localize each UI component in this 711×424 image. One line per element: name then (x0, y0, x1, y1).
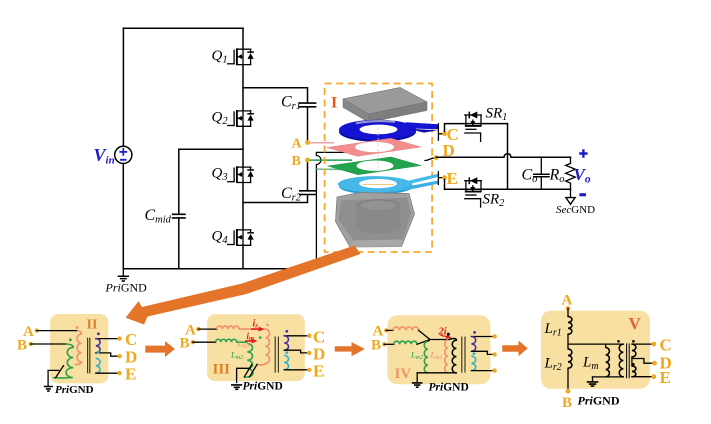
svg-text:Q2: Q2 (212, 110, 229, 128)
wire Vin to bottom rail (122, 164, 124, 269)
node E V (651, 374, 656, 379)
inductor Lr2 V (568, 349, 572, 368)
winding salmon vertical III (258, 329, 270, 365)
dashed box I (325, 84, 433, 253)
capacitor Cr2 (281, 185, 316, 204)
resistor Ro (549, 157, 576, 189)
arrow III to IV (335, 342, 365, 356)
ground SecGND (556, 189, 595, 216)
node E II (117, 371, 121, 375)
svg-text:C: C (660, 336, 672, 355)
wire secondary bottom rail (445, 188, 571, 190)
ground PriGND III (231, 364, 283, 392)
svg-text:B: B (180, 336, 190, 352)
wire Q1 drain from rail (242, 28, 244, 49)
svg-text:E: E (125, 365, 136, 384)
svg-text:IV: IV (395, 366, 412, 382)
capacitor Co (522, 157, 550, 189)
node C V (651, 342, 656, 347)
svg-text:A: A (562, 293, 573, 309)
wire node to Cr2 (243, 195, 308, 203)
wire Q4 source to bottom rail (242, 245, 244, 269)
wire Q2 source to Q3 drain (242, 126, 244, 167)
node D III (307, 351, 311, 355)
winding ring blue (layer C) (339, 120, 438, 142)
node C III (307, 334, 311, 338)
svg-text:Cr1: Cr1 (281, 94, 301, 113)
wire E III (284, 369, 309, 371)
wire D tap II (96, 353, 120, 356)
node C IV (492, 334, 496, 338)
wire node to Cmid (179, 149, 243, 214)
wire E II (96, 372, 120, 374)
wire Cr1 to node A (307, 107, 309, 140)
winding secondary purple II (96, 339, 100, 353)
wire C V (632, 343, 654, 345)
winding sheet salmon (layer A) (327, 138, 421, 156)
node D V (652, 361, 657, 366)
ground PriGND II (44, 366, 94, 396)
svg-text:I: I (331, 95, 337, 112)
node A (305, 140, 310, 145)
transistor SR1 (465, 112, 482, 142)
core III (275, 337, 278, 373)
wire B IV (384, 343, 394, 345)
svg-text:V: V (629, 314, 642, 333)
node B (305, 158, 310, 163)
svg-text:Q4: Q4 (212, 229, 229, 247)
capacitor Cr1 (281, 94, 316, 113)
transistor Q3 (228, 166, 254, 183)
svg-text:PriGND: PriGND (429, 382, 469, 394)
arrow IV to V (502, 341, 528, 357)
wire B II (31, 343, 66, 345)
inductor Lk1 salmon horizontal IV (393, 327, 419, 330)
transistor Q1 (228, 48, 254, 65)
wire node to Lm and primary (568, 334, 623, 349)
winding primary salmon II (75, 331, 82, 365)
wire bracket E (438, 172, 442, 185)
wire node to Cr1 (243, 88, 308, 103)
inductor Lm2 green vertical III (244, 344, 253, 378)
wire B III (193, 341, 216, 343)
wire C IV (471, 336, 494, 338)
svg-text:SR1: SR1 (486, 106, 508, 124)
wire A IV (386, 329, 393, 331)
panel V background (541, 311, 650, 389)
core top plate (343, 88, 427, 123)
svg-text:B: B (562, 395, 572, 411)
svg-text:Vin: Vin (94, 145, 115, 167)
svg-text:SecGND: SecGND (556, 204, 595, 216)
node A IV (384, 328, 388, 332)
core IV (462, 337, 465, 373)
winding primary black V (619, 344, 623, 377)
winding ring cyan (layer E) (338, 174, 438, 195)
panel II background (50, 314, 108, 383)
wire A III (198, 328, 216, 330)
node B III (191, 340, 195, 344)
inductor Lk2 green horizontal IV (394, 341, 417, 344)
svg-text:II: II (87, 318, 98, 333)
node D (434, 155, 439, 160)
winding secondary lower V (632, 366, 636, 377)
wire A to Lr1 (567, 308, 569, 316)
wire SR1 to bottom rail (507, 124, 509, 190)
wire E down to rail (444, 180, 446, 190)
winding secondary teal II (96, 358, 100, 373)
inductor Lk2 green horizontal III (216, 339, 248, 342)
current arrow ir III (251, 328, 260, 330)
wire bottom rail V (593, 376, 624, 378)
wire Cr2 to node B (307, 162, 309, 191)
wire Q1 source to Q2 drain (242, 65, 244, 111)
winding secondary teal IV (471, 356, 475, 370)
node E (442, 175, 447, 180)
capacitor Cmid (145, 207, 186, 226)
inductor Lm1 salmon vertical IV (445, 340, 448, 373)
wire Lr2 to node B (567, 368, 569, 389)
current arrow im III (245, 340, 253, 342)
wire top rail (123, 27, 243, 29)
polarity dots V (617, 340, 620, 343)
node A II (35, 328, 39, 332)
inductor Lk1 salmon horizontal III (217, 326, 266, 329)
panel III background (207, 314, 305, 381)
svg-text:B: B (17, 338, 27, 354)
wire bottom rail (123, 268, 316, 270)
svg-text:E: E (447, 169, 458, 188)
svg-text:Ro: Ro (549, 167, 565, 186)
inductor Lm V (605, 344, 607, 347)
wire E IV (471, 370, 494, 372)
svg-text:PriGND: PriGND (55, 384, 94, 396)
wire A II (37, 330, 77, 332)
svg-text:B: B (371, 338, 381, 354)
svg-text:E: E (313, 362, 324, 381)
wire C III (284, 335, 309, 337)
node D II (117, 354, 121, 358)
winding secondary purple IV (471, 336, 475, 351)
svg-text:PriGND: PriGND (578, 394, 620, 408)
winding secondary purple III (284, 336, 288, 350)
ground PriGND main (105, 269, 148, 295)
svg-text:Q1: Q1 (212, 48, 228, 66)
wire E V (632, 376, 654, 378)
wire bottom rail IV (417, 372, 456, 374)
svg-text:Vo: Vo (574, 165, 591, 186)
ground PriGND V (578, 377, 620, 408)
svg-text:Q3: Q3 (212, 166, 228, 184)
ground PriGND IV (412, 373, 469, 394)
wire C II (96, 338, 120, 340)
wire C to SR1 line (445, 124, 508, 132)
arrow II to III (145, 341, 175, 357)
core V (627, 343, 630, 378)
wire left vertical to Vin (122, 28, 124, 146)
node E III (307, 368, 311, 372)
arrow big (126, 246, 361, 325)
node A III (196, 327, 200, 331)
node E IV (492, 368, 496, 372)
axis line pink dashed (377, 127, 379, 190)
core II (88, 338, 90, 374)
node C (442, 131, 447, 136)
node B II (29, 342, 33, 346)
wire D tap V (632, 357, 655, 366)
wire primary return to ground with hop over B wire (316, 152, 350, 268)
svg-text:Cmid: Cmid (145, 207, 172, 226)
svg-text:SR2: SR2 (483, 192, 506, 210)
node C II (117, 336, 121, 340)
inductor Lm2 green vertical IV (424, 341, 428, 373)
transistor Q2 (228, 110, 254, 127)
svg-text:PriGND: PriGND (243, 381, 283, 393)
core bottom E-core (336, 193, 415, 248)
transistor Q4 (228, 229, 254, 246)
wire junction diagonals IV (417, 330, 449, 344)
transistor SR2 (465, 177, 482, 207)
node B IV (382, 342, 386, 346)
wire node D line with hop (436, 154, 570, 158)
wire D tap IV (471, 351, 494, 354)
panel IV background (387, 315, 490, 384)
wire node B green (308, 159, 353, 161)
winding sheet green (layer B) (328, 157, 421, 175)
winding primary black IV (449, 338, 456, 373)
wire into node D (425, 158, 436, 161)
svg-text:III: III (213, 362, 231, 378)
svg-text:Co: Co (522, 167, 538, 186)
svg-text:PriGND: PriGND (105, 281, 148, 295)
inductor Lr1 V (568, 317, 572, 335)
svg-text:E: E (660, 368, 671, 387)
output labels Vo (574, 149, 591, 196)
wire D tap III (284, 350, 309, 353)
wire node A pink (308, 142, 335, 144)
winding secondary teal III (284, 355, 288, 369)
svg-text:C: C (125, 330, 137, 349)
wire Q3 source to Q4 drain (242, 182, 244, 230)
svg-text:B: B (292, 154, 301, 169)
node D IV (492, 352, 496, 356)
svg-text:Cr2: Cr2 (281, 185, 302, 204)
svg-text:A: A (292, 137, 303, 152)
wire bracket C (438, 124, 442, 140)
source Vin (94, 145, 132, 167)
winding secondary upper V (632, 344, 636, 357)
wire Cmid to bottom rail (178, 218, 180, 269)
wire green return faded (316, 168, 357, 170)
winding primary green II (53, 344, 74, 378)
